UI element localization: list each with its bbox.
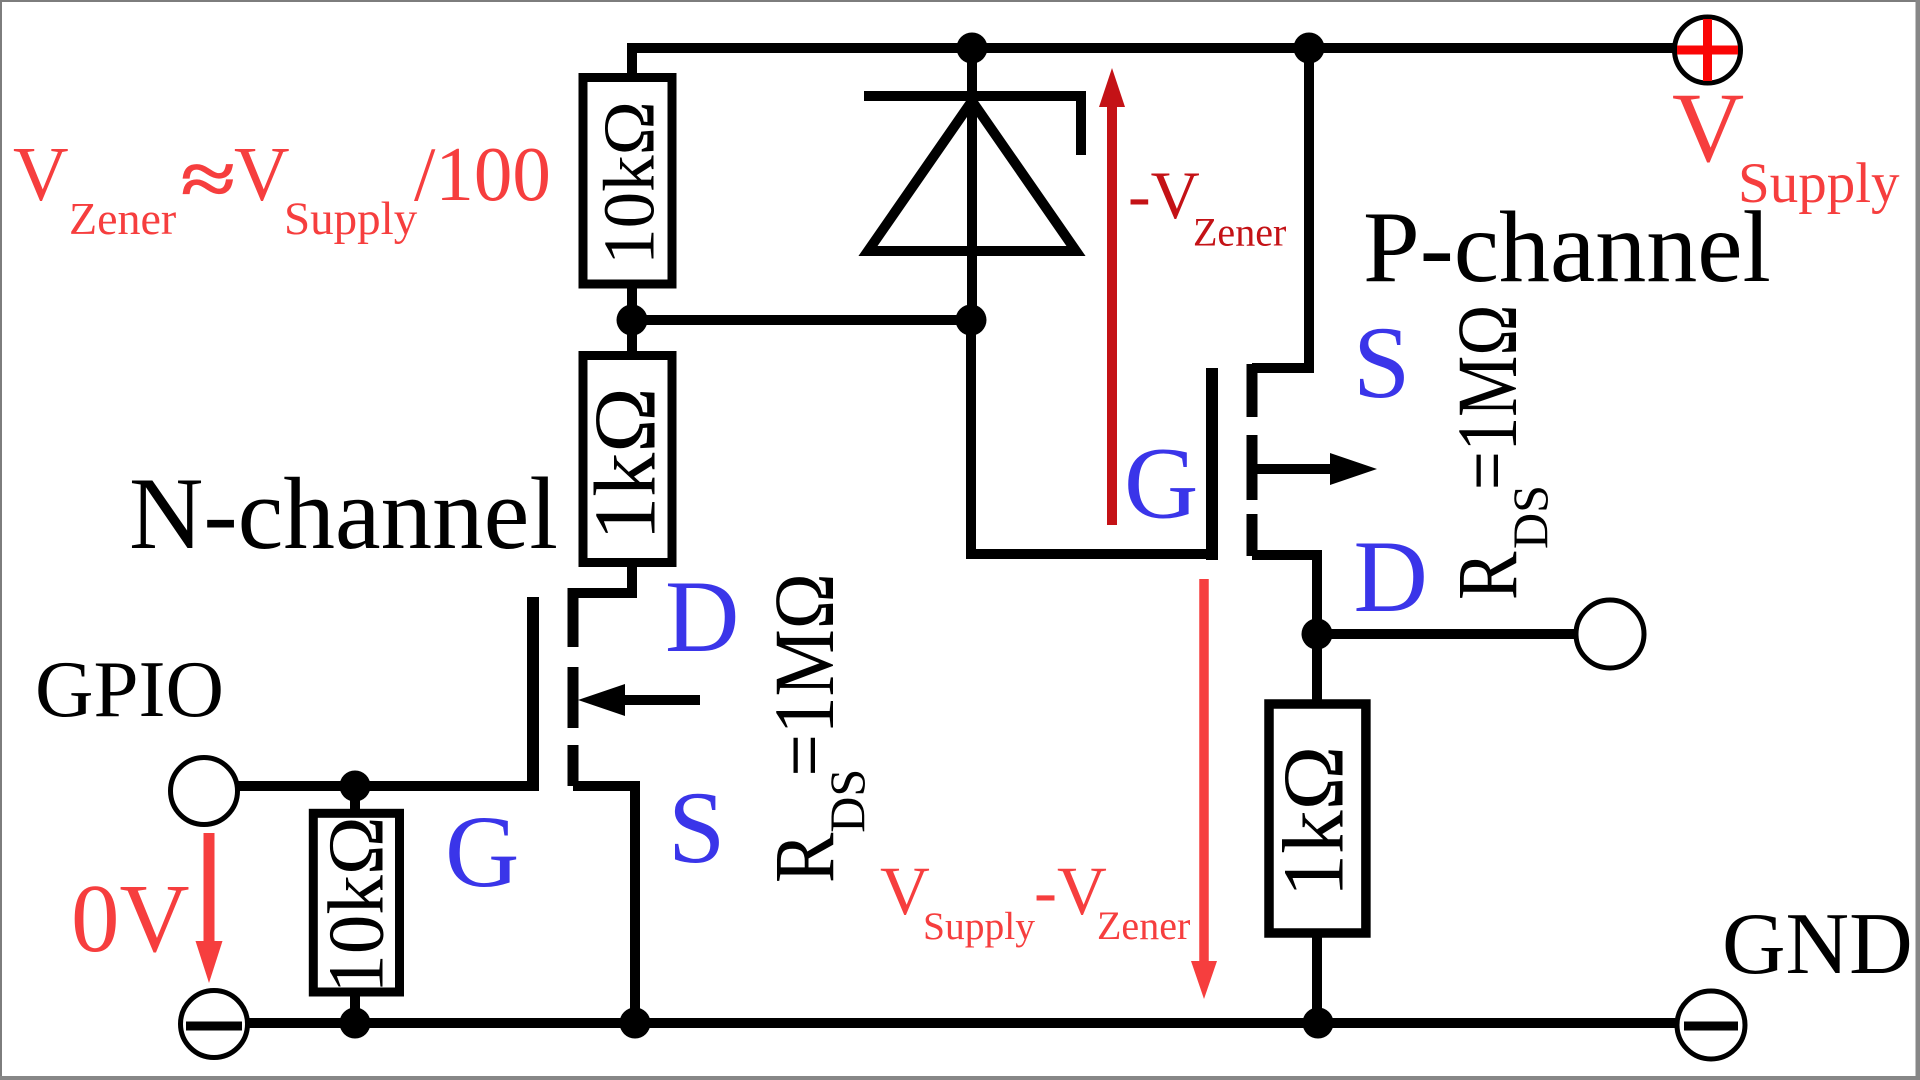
svg-text:Zener: Zener xyxy=(69,193,176,244)
svg-text:1kΩ: 1kΩ xyxy=(1265,746,1362,898)
transistor Q1 arrow head xyxy=(578,684,625,716)
svg-text:V: V xyxy=(234,131,290,217)
svg-text:1kΩ: 1kΩ xyxy=(578,387,675,540)
svg-text:V: V xyxy=(1672,72,1744,183)
svg-text:/100: /100 xyxy=(414,131,551,217)
wire zener node to Q2 gate xyxy=(971,320,1206,554)
zener diode D1 cathode bar xyxy=(864,96,1081,155)
svg-text:DS: DS xyxy=(819,769,875,833)
svg-text:P-channel: P-channel xyxy=(1363,191,1771,304)
svg-text:-V: -V xyxy=(1128,157,1200,233)
transistor Q2 channel dash 2 xyxy=(1247,435,1258,500)
svg-text:=1MΩ: =1MΩ xyxy=(758,573,853,776)
svg-text:G: G xyxy=(445,795,519,909)
transistor Q2 channel dash 3 xyxy=(1247,514,1258,556)
arrow V_Supply-V_Zener red down (bright red) xyxy=(1199,579,1209,963)
wire Q2 source from rail xyxy=(1252,48,1309,368)
transistor Q1 channel dash 1 xyxy=(568,588,579,647)
terminal V_Supply circle with red cross xyxy=(1675,17,1741,83)
terminal output circle xyxy=(1576,600,1644,668)
svg-text:V: V xyxy=(13,131,69,217)
terminal GPIO circle xyxy=(171,758,238,825)
wire Q2 drain to output terminal xyxy=(1317,629,1574,639)
zener diode D1 vertical lead xyxy=(967,48,977,320)
wire R4 top lead xyxy=(1312,634,1322,705)
svg-text:D: D xyxy=(665,560,739,674)
transistor Q2 arrow head xyxy=(1330,453,1377,485)
transistor Q2 P-channel gate bar xyxy=(1206,368,1218,560)
resistor R4 1kOhm (right) xyxy=(1269,704,1366,933)
wire Q1 source to ground xyxy=(573,786,635,1023)
node junction R3/ground xyxy=(340,1008,371,1039)
svg-text:GPIO: GPIO xyxy=(35,644,224,734)
svg-text:G: G xyxy=(1124,427,1198,541)
node junction Q2 drain xyxy=(1302,619,1333,650)
wire Q2 drain down xyxy=(1252,555,1317,634)
svg-text:10kΩ: 10kΩ xyxy=(589,101,670,265)
svg-text:Supply: Supply xyxy=(923,904,1035,948)
svg-text:Supply: Supply xyxy=(284,193,418,245)
transistor Q1 channel dash 3 xyxy=(568,745,579,786)
ground rail wire xyxy=(247,1018,1676,1028)
svg-text:0V: 0V xyxy=(71,865,190,972)
svg-text:Zener: Zener xyxy=(1097,903,1190,948)
svg-text:GND: GND xyxy=(1722,896,1913,993)
node junction GPIO/R3 xyxy=(340,771,371,802)
transistor Q1 N-channel gate bar xyxy=(527,597,539,791)
arrow -V_Zener red up (dark red) xyxy=(1107,103,1117,525)
value label R_DS=1MOhm (Q1) xyxy=(758,573,875,883)
svg-text:≈: ≈ xyxy=(181,137,236,222)
svg-text:R: R xyxy=(1440,551,1535,600)
svg-text:N-channel: N-channel xyxy=(129,457,558,571)
wire R3 bottom lead xyxy=(350,991,360,1023)
transistor Q1 channel dash 2 xyxy=(568,667,579,728)
node B junction (R1/R2/zener) xyxy=(617,305,648,336)
arrow 0V red down xyxy=(204,833,215,945)
resistor R3 10kOhm (pull-down) xyxy=(313,813,399,992)
wire GPIO to Q1 gate xyxy=(238,781,533,791)
svg-text:S: S xyxy=(1353,306,1410,420)
terminal GND right circle xyxy=(1677,991,1745,1059)
svg-text:S: S xyxy=(668,771,725,885)
svg-text:R: R xyxy=(758,833,853,883)
svg-text:10kΩ: 10kΩ xyxy=(314,816,401,993)
transistor Q1 arrow line xyxy=(622,695,700,705)
terminal GND left circle xyxy=(181,991,248,1058)
node junction zener bottom xyxy=(956,305,987,336)
value label R_DS=1MOhm (Q2) xyxy=(1440,305,1558,600)
wire R1 to node B xyxy=(627,284,637,355)
svg-text:Supply: Supply xyxy=(1738,152,1900,215)
svg-text:=1MΩ: =1MΩ xyxy=(1440,305,1535,490)
svg-text:Zener: Zener xyxy=(1193,210,1286,255)
svg-text:D: D xyxy=(1354,520,1428,634)
node junction R4/ground xyxy=(1303,1008,1334,1039)
transistor Q2 channel dash 1 xyxy=(1247,364,1258,417)
resistor R1 10kOhm (top) xyxy=(583,78,672,285)
wire R2 to Q1 drain step xyxy=(573,563,632,593)
zener diode D1 triangle xyxy=(868,101,1076,251)
wire node B to zener anode column xyxy=(632,315,972,325)
transistor Q2 arrow line xyxy=(1252,464,1332,474)
node junction Q1 source/ground xyxy=(620,1008,651,1039)
resistor R2 1kOhm xyxy=(583,356,672,563)
node junction Q2 source on rail xyxy=(1294,33,1325,64)
wire R4 bottom lead xyxy=(1312,932,1322,1023)
svg-text:DS: DS xyxy=(1502,485,1558,549)
wire top supply rail xyxy=(632,48,1673,80)
wire R3 top lead xyxy=(350,786,360,814)
node junction zener top on rail xyxy=(957,33,988,64)
